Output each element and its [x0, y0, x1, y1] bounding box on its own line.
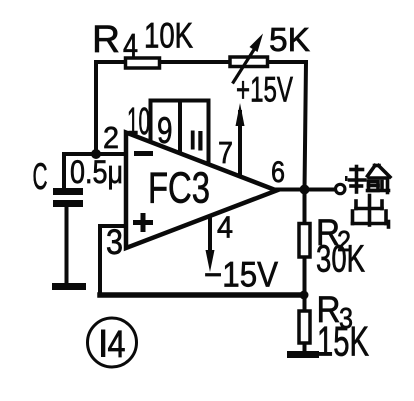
svg-text:5K: 5K	[269, 21, 310, 58]
svg-text:R: R	[92, 19, 120, 61]
svg-text:10: 10	[127, 101, 150, 143]
svg-text:4: 4	[123, 27, 138, 64]
svg-text:C: C	[33, 156, 48, 197]
svg-text:2: 2	[103, 120, 119, 155]
svg-text:9: 9	[157, 110, 173, 151]
svg-text:15K: 15K	[317, 318, 369, 365]
svg-text:−15V: −15V	[204, 256, 279, 295]
svg-text:7: 7	[218, 135, 233, 170]
svg-text:+15V: +15V	[236, 71, 293, 110]
svg-text:10K: 10K	[144, 17, 193, 56]
svg-text:4: 4	[217, 210, 233, 245]
svg-text:FC3: FC3	[148, 164, 210, 213]
svg-text:6: 6	[271, 156, 285, 189]
svg-text:4: 4	[108, 324, 126, 366]
svg-text:0.5μ: 0.5μ	[70, 154, 123, 190]
svg-text:30K: 30K	[316, 239, 365, 281]
svg-text:3: 3	[106, 223, 123, 262]
